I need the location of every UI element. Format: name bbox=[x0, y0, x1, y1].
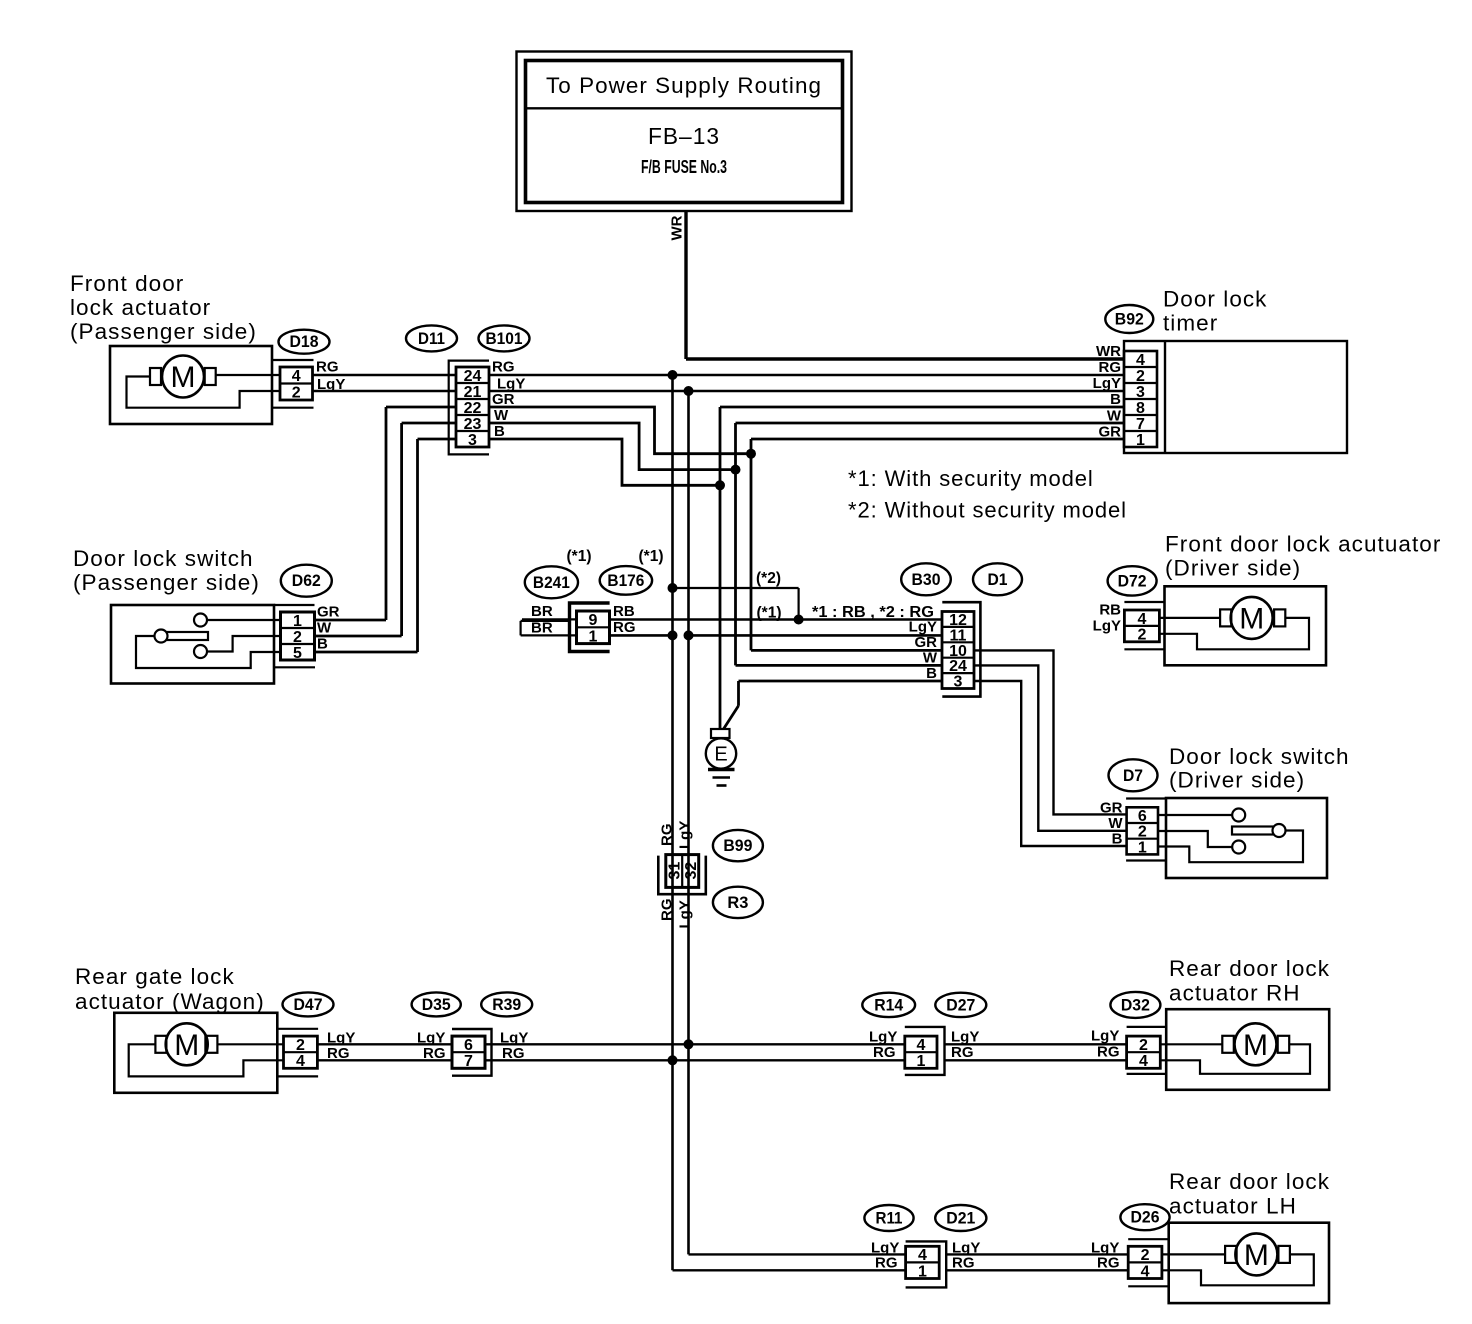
motor box actuator RH bbox=[1166, 1009, 1329, 1090]
wire B riser from D62 bbox=[315, 439, 418, 652]
svg-text:D1: D1 bbox=[988, 571, 1008, 589]
wire W riser from D62 bbox=[315, 423, 402, 636]
wire label B at B30 bbox=[926, 665, 937, 682]
svg-text:*1: With security model: *1: With security model bbox=[848, 466, 1094, 491]
power supply box FB-13 bbox=[517, 52, 852, 212]
wire label RG above B99 bbox=[659, 824, 676, 847]
connector label R11 bbox=[864, 1205, 913, 1231]
wire label RG at B176 bbox=[613, 619, 636, 636]
label (*1) above B176 bbox=[639, 548, 664, 565]
connector B176 pins bbox=[577, 611, 610, 645]
wire B vertical to ground bbox=[719, 407, 722, 729]
connector label D47 bbox=[283, 992, 334, 1016]
connector B101 pins bbox=[456, 367, 489, 449]
wire label WR bbox=[669, 215, 686, 240]
wire label LgY before R14 bbox=[869, 1029, 897, 1046]
label Door lock switch (Driver side) bbox=[1169, 744, 1350, 793]
wire LgY trunk to B30 pin 11 bbox=[689, 634, 943, 637]
wire RG bus R39 to R14 bbox=[485, 1059, 905, 1061]
connector D32 bracket bbox=[1127, 1027, 1167, 1074]
wire label WR at timer bbox=[1096, 343, 1121, 360]
connector D72 bracket bbox=[1124, 602, 1164, 649]
connector D32 pins bbox=[1127, 1036, 1161, 1070]
connector label R3 bbox=[713, 887, 763, 918]
connector D35 pins bbox=[452, 1036, 485, 1070]
motor M driver bbox=[1220, 597, 1285, 639]
svg-text:GR: GR bbox=[1099, 424, 1122, 441]
connector D1 bracket bbox=[942, 602, 980, 696]
motor M LH bbox=[1225, 1233, 1290, 1275]
switch contact top driver bbox=[1232, 809, 1245, 822]
svg-text:*2: Without security model: *2: Without security model bbox=[848, 498, 1127, 523]
wire switch pin 2 W driver bbox=[1158, 831, 1232, 847]
svg-text:RG: RG bbox=[1097, 1044, 1120, 1061]
motor box actuator wagon bbox=[114, 1013, 277, 1093]
svg-text:RG: RG bbox=[659, 824, 676, 847]
wire W to B101 bbox=[402, 422, 456, 425]
wire BR to pin 9 bbox=[522, 618, 577, 620]
svg-text:4: 4 bbox=[1141, 1263, 1150, 1280]
svg-text:RG: RG bbox=[659, 899, 676, 922]
wire label LgY before D35 bbox=[417, 1030, 445, 1047]
label Door lock switch (Passenger side) bbox=[73, 546, 260, 595]
connector R14 pins bbox=[905, 1036, 937, 1070]
connector D26 bracket bbox=[1128, 1239, 1169, 1286]
wire label W at D62 bbox=[317, 620, 332, 637]
connector D47 pins bbox=[284, 1036, 318, 1070]
switch box passenger bbox=[111, 605, 274, 684]
wire label GR at D62 bbox=[317, 604, 340, 621]
svg-text:4: 4 bbox=[1139, 1053, 1148, 1070]
svg-text:(Passenger side): (Passenger side) bbox=[73, 570, 260, 595]
svg-text:1: 1 bbox=[1136, 432, 1145, 449]
wire RG bus D27 to D32 bbox=[945, 1059, 1127, 1061]
svg-text:D18: D18 bbox=[290, 333, 319, 351]
wire label LgY after D21 bbox=[952, 1240, 980, 1257]
svg-text:lock actuator: lock actuator bbox=[70, 295, 211, 320]
svg-text:Rear gate lock: Rear gate lock bbox=[75, 964, 235, 989]
wire LgY trunk corner to R11 bbox=[689, 1253, 906, 1255]
svg-text:D27: D27 bbox=[946, 996, 975, 1014]
connector B30 pins bbox=[942, 612, 974, 691]
connector D18 bbox=[272, 360, 314, 408]
wire label RG before R11 bbox=[875, 1255, 898, 1272]
switch contact bottom passenger bbox=[194, 645, 207, 658]
svg-text:Rear door lock: Rear door lock bbox=[1169, 956, 1330, 981]
note without security model bbox=[848, 498, 1127, 523]
connector D62 pins bbox=[281, 612, 315, 662]
label Front door lock acutuator (Driver side) bbox=[1165, 532, 1441, 581]
label *1 RB *2 RG bbox=[812, 604, 934, 621]
wire motor passenger to pin 4 bbox=[216, 374, 280, 376]
label (*1) at RB wire bbox=[757, 605, 782, 622]
svg-text:GR: GR bbox=[1100, 800, 1123, 817]
wire label B at timer bbox=[1110, 391, 1121, 408]
svg-text:B92: B92 bbox=[1115, 311, 1144, 329]
svg-text:D7: D7 bbox=[1123, 767, 1143, 785]
wire RG trunk corner to R11 bbox=[673, 1269, 906, 1271]
wire label GR at B101 bbox=[492, 391, 515, 408]
joint connector stub BR bbox=[521, 621, 570, 636]
connector R14 bracket bbox=[905, 1027, 945, 1075]
svg-text:D47: D47 bbox=[294, 996, 323, 1014]
wire RG bus D47 to D35 bbox=[317, 1059, 452, 1061]
wire motor driver pin 2 bbox=[1159, 618, 1309, 649]
svg-text:GR: GR bbox=[492, 391, 515, 408]
svg-text:3: 3 bbox=[954, 674, 963, 691]
svg-text:RB: RB bbox=[613, 603, 635, 620]
wire W B30 pin 24 to D7 pin 2 bbox=[974, 665, 1127, 830]
wire label W at B101 bbox=[494, 407, 509, 424]
wire LgY bus R39 to R14 bbox=[485, 1043, 905, 1045]
svg-text:LgY: LgY bbox=[677, 821, 694, 849]
label (*2) bbox=[756, 570, 781, 587]
wire label RG before D35 bbox=[423, 1045, 446, 1062]
wire label B at B101 bbox=[494, 423, 505, 440]
svg-text:RG: RG bbox=[952, 1255, 975, 1272]
svg-text:RG: RG bbox=[875, 1255, 898, 1272]
connector label B101 bbox=[479, 325, 530, 351]
connector B99 bracket bbox=[658, 856, 706, 895]
svg-text:RG: RG bbox=[951, 1044, 974, 1061]
wire label B at D62 bbox=[317, 636, 328, 653]
svg-text:B176: B176 bbox=[607, 572, 644, 590]
svg-text:B: B bbox=[1112, 831, 1123, 848]
node LgY junction bbox=[684, 386, 694, 396]
connector D47 bracket bbox=[277, 1029, 318, 1077]
svg-text:W: W bbox=[494, 407, 509, 424]
svg-text:R39: R39 bbox=[492, 996, 521, 1014]
connector R11 pins bbox=[906, 1246, 940, 1280]
svg-text:M: M bbox=[171, 361, 196, 394]
wire W vertical bbox=[734, 423, 737, 665]
node RG trunk junction at B176 bbox=[668, 630, 678, 640]
connector label D18 bbox=[279, 330, 330, 354]
connector D62 bracket bbox=[274, 605, 315, 667]
wire label LgY after R39 bbox=[500, 1030, 528, 1047]
node LgY junction at B30 wire bbox=[684, 630, 694, 640]
wire label RG below B99 bbox=[659, 899, 676, 922]
svg-text:WR: WR bbox=[1096, 343, 1121, 360]
svg-text:R14: R14 bbox=[874, 996, 904, 1014]
svg-text:B: B bbox=[317, 636, 328, 653]
wire B to B101 bbox=[418, 438, 457, 441]
svg-text:32: 32 bbox=[683, 862, 700, 880]
svg-text:E: E bbox=[714, 744, 727, 766]
connector B99 pins bbox=[666, 855, 700, 888]
wire RG D18 to B101 bbox=[313, 374, 457, 377]
wire B jog bbox=[489, 439, 720, 485]
svg-text:M: M bbox=[1243, 1029, 1268, 1062]
svg-text:BR: BR bbox=[531, 620, 553, 637]
node B junction bbox=[715, 480, 725, 490]
wire LgY B101 to timer bbox=[489, 390, 1124, 393]
svg-text:(*1): (*1) bbox=[757, 605, 782, 622]
svg-text:B: B bbox=[926, 665, 937, 682]
connector D7 pins bbox=[1127, 807, 1158, 856]
svg-text:R3: R3 bbox=[727, 894, 748, 912]
svg-text:W: W bbox=[1108, 815, 1123, 832]
svg-text:M: M bbox=[174, 1029, 199, 1062]
svg-text:GR: GR bbox=[915, 634, 938, 651]
connector label D7 bbox=[1109, 759, 1158, 791]
wire motor RH pin 4 bbox=[1160, 1044, 1310, 1074]
switch contact bottom driver bbox=[1232, 841, 1245, 854]
wire label W at timer bbox=[1107, 408, 1122, 425]
connector R39 bracket bbox=[452, 1029, 492, 1076]
wire RG trunk vertical bbox=[671, 375, 674, 1270]
wire label LgY at B101 bbox=[497, 376, 525, 393]
wire B30 pin 3 to ground bbox=[724, 681, 943, 729]
svg-text:RG: RG bbox=[613, 619, 636, 636]
wire star2 branch bbox=[673, 588, 799, 620]
motor M passenger bbox=[150, 356, 216, 398]
connector label B92 bbox=[1105, 305, 1153, 333]
wire LgY D21 to D26 bbox=[946, 1253, 1128, 1255]
svg-text:W: W bbox=[317, 620, 332, 637]
svg-text:(*1): (*1) bbox=[567, 548, 592, 565]
wire label LgY at timer bbox=[1093, 375, 1121, 392]
motor M RH bbox=[1222, 1023, 1289, 1065]
svg-text:D72: D72 bbox=[1118, 572, 1147, 590]
motor box actuator passenger bbox=[110, 346, 272, 424]
svg-text:M: M bbox=[1244, 1239, 1269, 1272]
connector label D35 bbox=[412, 992, 461, 1016]
svg-text:D21: D21 bbox=[946, 1210, 975, 1228]
note with security model bbox=[848, 466, 1094, 491]
svg-text:RB: RB bbox=[1099, 602, 1121, 619]
svg-text:31: 31 bbox=[667, 862, 684, 880]
connector label D21 bbox=[935, 1205, 986, 1231]
node RG bus junction bbox=[668, 1055, 678, 1065]
wire label LgY after D27 bbox=[951, 1029, 979, 1046]
label Rear door lock actuator RH bbox=[1169, 956, 1330, 1006]
wire label LgY before D26 bbox=[1091, 1240, 1119, 1257]
node W junction bbox=[731, 465, 741, 475]
door lock timer box bbox=[1124, 341, 1347, 453]
svg-text:Front door: Front door bbox=[70, 271, 184, 296]
svg-text:WR: WR bbox=[669, 215, 686, 240]
wire switch pin 6 GR driver bbox=[1158, 814, 1232, 816]
wire label BR upper bbox=[531, 603, 553, 620]
wire label RG at timer bbox=[1099, 359, 1122, 376]
connector label D72 bbox=[1108, 566, 1157, 595]
svg-text:LgY: LgY bbox=[909, 619, 937, 636]
wire GR to B101 bbox=[386, 406, 456, 409]
ground E bbox=[706, 729, 736, 786]
svg-text:(Driver side): (Driver side) bbox=[1169, 768, 1305, 793]
label Rear door lock actuator LH bbox=[1169, 1169, 1330, 1219]
svg-text:LgY: LgY bbox=[677, 900, 694, 928]
svg-text:1: 1 bbox=[589, 628, 598, 645]
wire label W at B30 bbox=[923, 650, 938, 667]
svg-text:D35: D35 bbox=[422, 996, 451, 1014]
svg-text:(*2): (*2) bbox=[756, 570, 781, 587]
wire RB B176 to B30 pin 12 bbox=[610, 618, 942, 621]
wire W to B30 pin 24 bbox=[736, 664, 943, 667]
svg-text:RG: RG bbox=[873, 1044, 896, 1061]
wire W to timer bbox=[736, 422, 1125, 425]
connector label B30 bbox=[901, 563, 951, 595]
node RB junction star2 bbox=[794, 615, 804, 625]
wire GR to timer bbox=[751, 438, 1124, 441]
svg-text:1: 1 bbox=[918, 1263, 927, 1280]
wire label LgY before R11 bbox=[871, 1240, 899, 1257]
label To Power Supply Routing bbox=[546, 73, 822, 98]
svg-text:actuator RH: actuator RH bbox=[1169, 981, 1301, 1006]
svg-text:RG: RG bbox=[316, 359, 339, 376]
wire label RG at D18 bbox=[316, 359, 339, 376]
connector label B99 bbox=[713, 830, 763, 861]
svg-text:D62: D62 bbox=[292, 572, 321, 590]
label Door lock timer bbox=[1163, 287, 1267, 336]
wire motor wagon pin 2 bbox=[218, 1043, 283, 1045]
wire label RG after D47 bbox=[327, 1045, 350, 1062]
wire B B30 pin 3 to D7 pin 1 bbox=[974, 681, 1127, 846]
node star2 branch junction bbox=[668, 583, 678, 593]
svg-text:M: M bbox=[1239, 602, 1264, 635]
wire label LgY at D18 bbox=[317, 376, 345, 393]
wire label RG after R39 bbox=[502, 1045, 525, 1062]
motor box actuator driver bbox=[1165, 586, 1327, 665]
svg-text:D11: D11 bbox=[418, 330, 445, 348]
connector label R14 bbox=[862, 993, 915, 1017]
wire motor RH pin 2 bbox=[1160, 1043, 1222, 1045]
wire switch pin 1 GR passenger bbox=[207, 619, 281, 621]
svg-text:RG: RG bbox=[1097, 1255, 1120, 1272]
wire WR bbox=[686, 211, 1124, 359]
wire motor wagon pin 4 bbox=[129, 1044, 284, 1076]
connector label D26 bbox=[1120, 1204, 1169, 1230]
svg-text:Door lock switch: Door lock switch bbox=[1169, 744, 1350, 769]
wire W jog bbox=[489, 423, 736, 470]
switch lever driver bbox=[1232, 824, 1286, 837]
connector label D11 bbox=[406, 325, 457, 351]
connector label B176 bbox=[600, 566, 652, 595]
wire GR jog bbox=[489, 407, 751, 454]
svg-text:D32: D32 bbox=[1121, 996, 1150, 1014]
svg-text:F/B FUSE No.3: F/B FUSE No.3 bbox=[641, 157, 727, 177]
svg-text:GR: GR bbox=[317, 604, 340, 621]
wire label RG at B101 bbox=[492, 359, 515, 376]
svg-text:B: B bbox=[494, 423, 505, 440]
svg-text:B101: B101 bbox=[486, 330, 523, 348]
svg-text:LgY: LgY bbox=[869, 1029, 897, 1046]
connector D72 pins bbox=[1124, 610, 1159, 644]
wire label LgY at B30 bbox=[909, 619, 937, 636]
label FB-13 bbox=[648, 123, 720, 149]
svg-text:B241: B241 bbox=[533, 574, 570, 592]
wire GR vertical bbox=[750, 439, 753, 650]
connector D7 bracket bbox=[1126, 799, 1166, 861]
wire label GR at B30 bbox=[915, 634, 938, 651]
wire label GR at timer bbox=[1099, 424, 1122, 441]
node GR junction bbox=[746, 449, 756, 459]
wire label W at D7 bbox=[1108, 815, 1123, 832]
svg-text:RG: RG bbox=[1099, 359, 1122, 376]
node RG junction bbox=[668, 370, 678, 380]
wire GR to B30 pin 10 bbox=[751, 649, 942, 652]
wire RG D21 to D26 bbox=[946, 1269, 1128, 1271]
connector R11 bracket bbox=[906, 1241, 947, 1287]
node LgY bus junction bbox=[684, 1039, 694, 1049]
wire label LgY before D32 bbox=[1091, 1028, 1119, 1045]
svg-text:LgY: LgY bbox=[417, 1030, 445, 1047]
wire motor passenger to pin 2 bbox=[127, 377, 281, 408]
wire switch pin 1 B driver bbox=[1158, 831, 1303, 863]
connector label D27 bbox=[935, 993, 986, 1017]
wire switch pin 2 W passenger bbox=[207, 636, 281, 652]
wire motor LH pin 4 bbox=[1162, 1254, 1314, 1285]
svg-text:3: 3 bbox=[468, 432, 477, 449]
svg-text:4: 4 bbox=[296, 1053, 305, 1070]
wire label LgY below B99 bbox=[677, 900, 694, 928]
svg-text:B30: B30 bbox=[912, 571, 941, 589]
label F/B FUSE No.3 bbox=[641, 157, 727, 177]
svg-text:LgY: LgY bbox=[1091, 1028, 1119, 1045]
wire LgY bus D27 to D32 bbox=[945, 1043, 1127, 1045]
wire LgY bus D47 to D35 bbox=[317, 1043, 452, 1045]
wire label RB at B176 bbox=[613, 603, 635, 620]
connector B241 bracket bbox=[570, 603, 610, 652]
svg-text:Rear door lock: Rear door lock bbox=[1169, 1169, 1330, 1194]
svg-text:To Power Supply Routing: To Power Supply Routing bbox=[546, 73, 822, 98]
svg-text:R11: R11 bbox=[876, 1210, 903, 1228]
wire label GR at D7 bbox=[1100, 800, 1123, 817]
motor box actuator LH bbox=[1169, 1223, 1329, 1303]
wire label LgY after D47 bbox=[327, 1030, 355, 1047]
svg-text:2: 2 bbox=[1137, 627, 1146, 644]
wire RG B101 to timer bbox=[489, 374, 1124, 377]
wire LgY D18 to B101 bbox=[313, 390, 457, 393]
wire label RG before R14 bbox=[873, 1044, 896, 1061]
svg-text:(*1): (*1) bbox=[639, 548, 664, 565]
svg-text:D26: D26 bbox=[1131, 1209, 1160, 1227]
switch box driver bbox=[1166, 798, 1327, 878]
wire label RG before D26 bbox=[1097, 1255, 1120, 1272]
connector label B241 bbox=[525, 566, 578, 598]
svg-text:FB–13: FB–13 bbox=[648, 123, 720, 149]
wire GR B30 pin 10 to D7 pin 6 bbox=[974, 650, 1127, 814]
switch lever passenger bbox=[155, 630, 209, 643]
wire label RG after D27 bbox=[951, 1044, 974, 1061]
label Front door lock actuator (Passenger side) bbox=[70, 271, 257, 344]
wire LgY trunk vertical bbox=[687, 391, 690, 1254]
connector D26 pins bbox=[1128, 1246, 1162, 1280]
connector label D1 bbox=[973, 563, 1022, 595]
wire B to timer bbox=[720, 406, 1124, 409]
svg-text:timer: timer bbox=[1163, 311, 1218, 336]
svg-text:Door lock switch: Door lock switch bbox=[73, 546, 254, 571]
svg-text:B: B bbox=[1110, 391, 1121, 408]
motor M wagon bbox=[155, 1023, 217, 1065]
svg-text:2: 2 bbox=[292, 385, 301, 402]
svg-text:LgY: LgY bbox=[1093, 618, 1121, 635]
label (*1) above B241 bbox=[567, 548, 592, 565]
svg-text:1: 1 bbox=[916, 1053, 925, 1070]
wire GR riser from D62 bbox=[315, 407, 387, 620]
connector B92 pins bbox=[1124, 351, 1157, 449]
wire label RG after D21 bbox=[952, 1255, 975, 1272]
wire label RG before D32 bbox=[1097, 1044, 1120, 1061]
svg-text:B99: B99 bbox=[723, 837, 752, 855]
connector label D32 bbox=[1110, 992, 1160, 1018]
wire label B at D7 bbox=[1112, 831, 1123, 848]
svg-text:RG: RG bbox=[423, 1045, 446, 1062]
svg-text:7: 7 bbox=[464, 1053, 473, 1070]
svg-text:LgY: LgY bbox=[1093, 375, 1121, 392]
svg-text:BR: BR bbox=[531, 603, 553, 620]
